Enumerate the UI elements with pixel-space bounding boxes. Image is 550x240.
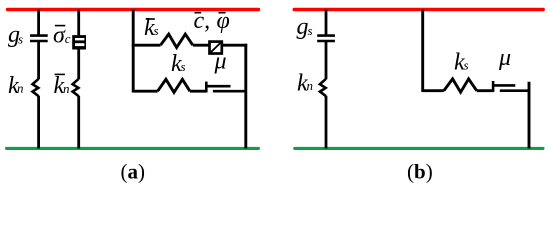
wire branch1 middle (a) — [37, 41, 40, 79]
svg-text:c: c — [65, 31, 71, 46]
rigid bottom bar (b) — [295, 147, 543, 150]
svg-text:φ: φ — [217, 8, 230, 34]
wire branch1 bottom (b) — [325, 96, 328, 149]
caption (b) — [407, 160, 433, 184]
wire bottom branch left (a) — [133, 90, 157, 93]
label gs (a) — [8, 22, 23, 48]
wire spring to friction (a) — [190, 90, 207, 93]
label ks (b) — [454, 50, 469, 76]
wire branch2 middle (a) — [77, 49, 80, 79]
dashpot gs (a) — [30, 36, 48, 41]
rigid top bar (b) — [294, 8, 543, 11]
wire branch1 top (a) — [37, 10, 40, 35]
label ks-bar (a) — [144, 15, 159, 41]
svg-text:n: n — [63, 81, 70, 96]
wire branch left (b) — [423, 89, 444, 92]
dashpot gs (b) — [317, 36, 335, 41]
wire middle-left vertical (b) — [421, 10, 424, 93]
rigid bottom bar (a) — [7, 147, 259, 150]
label mu (b) — [498, 45, 511, 71]
spring kn-bar (a) — [73, 79, 79, 96]
svg-text:(b): (b) — [407, 160, 433, 184]
slider sigma-c box (a) — [72, 35, 86, 49]
spring ks (b) — [444, 79, 477, 92]
wire branch2 bottom (a) — [77, 96, 80, 149]
svg-text:c,: c, — [194, 8, 211, 34]
slider box c-bar phi-bar (a) — [210, 42, 222, 54]
spring kn (a) — [33, 79, 39, 96]
svg-text:s: s — [308, 23, 313, 38]
wire right vertical (a) — [244, 44, 247, 149]
svg-text:s: s — [18, 31, 23, 46]
label mu (a) — [214, 49, 227, 75]
label kn (b) — [297, 70, 313, 96]
wire right vertical (b) — [528, 82, 531, 149]
wire branch1 bottom (a) — [37, 96, 40, 149]
label c-bar comma (a) — [194, 8, 211, 34]
label phi-bar (a) — [217, 8, 230, 34]
label ks (a) — [171, 51, 186, 77]
wire middle-left vertical (a) — [132, 10, 135, 93]
rigid top bar (a) — [8, 8, 259, 11]
friction element mu (a) — [206, 82, 246, 93]
wire top branch left (a) — [132, 44, 161, 47]
spring ks (a) — [158, 79, 190, 92]
svg-text:μ: μ — [214, 49, 227, 75]
label sigma-c bar (a) — [53, 23, 71, 49]
svg-text:s: s — [181, 59, 186, 74]
wire branch1 top (b) — [325, 10, 328, 35]
svg-text:n: n — [307, 78, 314, 93]
svg-text:(a): (a) — [121, 160, 146, 184]
label gs (b) — [297, 14, 313, 40]
svg-text:n: n — [17, 80, 24, 95]
friction element mu (b) — [493, 81, 529, 92]
wire branch1 middle (b) — [325, 41, 328, 79]
label kn-bar (a) — [54, 73, 70, 99]
wire box to corner (a) — [222, 44, 247, 47]
svg-text:μ: μ — [498, 45, 511, 71]
wire branch2 top (a) — [77, 10, 80, 37]
spring kn (b) — [320, 79, 326, 96]
svg-text:s: s — [464, 58, 469, 73]
label kn (a) — [8, 73, 24, 99]
wire spring to box (a) — [193, 44, 209, 47]
spring ks-bar (a) — [161, 34, 193, 47]
wire spring to friction (b) — [477, 89, 494, 92]
svg-text:s: s — [154, 23, 159, 38]
caption (a) — [121, 160, 146, 184]
